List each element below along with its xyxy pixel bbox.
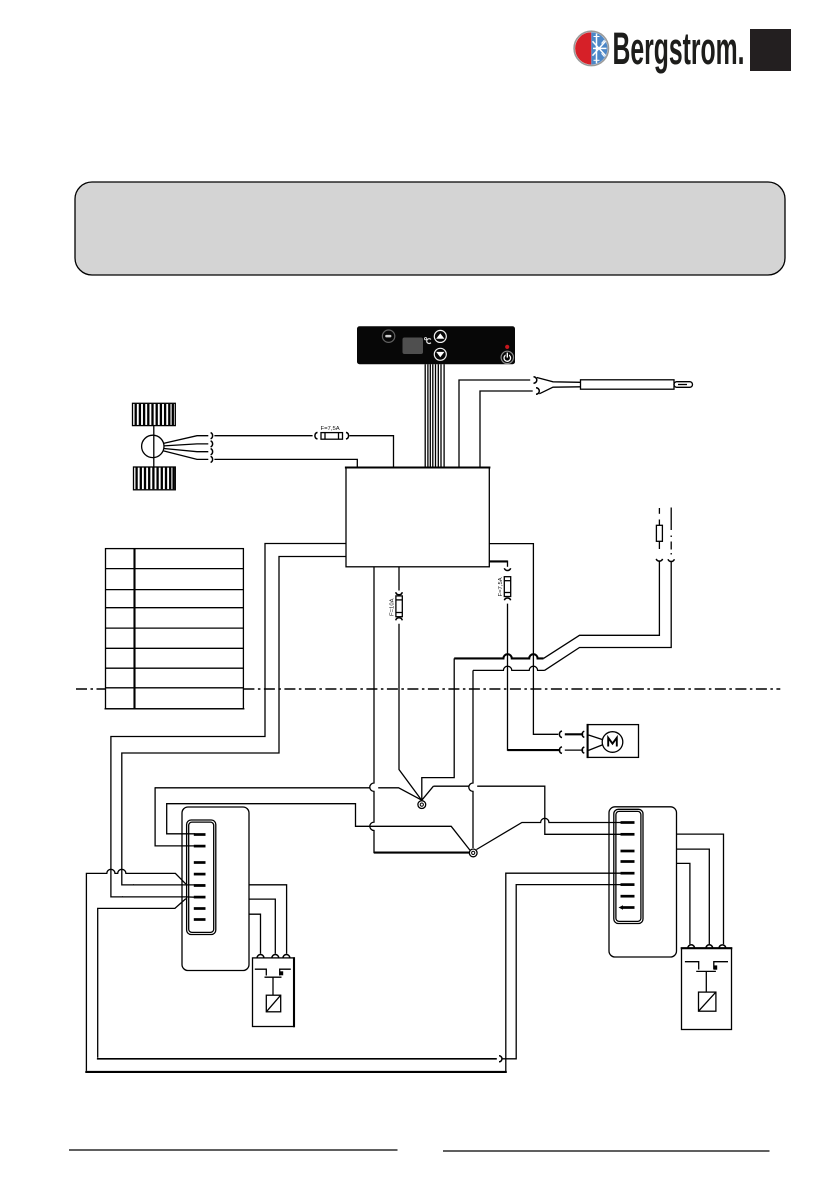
wire box-left 2 to strip1 pin5 xyxy=(122,557,346,885)
relay strip 1 (left) outer housing xyxy=(182,807,249,971)
logo Bergstrom circle xyxy=(574,31,608,65)
main chassis dash-dot line xyxy=(76,688,780,690)
grey rounded note box xyxy=(75,182,785,275)
control box (main ECU) xyxy=(345,468,491,567)
junction node J1 xyxy=(418,801,426,809)
strip2 wires to relay K2 xyxy=(677,834,724,944)
fuse F 7,5A (fan feed) xyxy=(214,426,393,467)
legend table xyxy=(105,549,245,709)
strip1 wires to relay K1 xyxy=(249,885,287,954)
wire J2 diagonal to strip2 pin1 xyxy=(477,818,621,849)
relay strip 2 (right) outer housing xyxy=(609,807,677,957)
fan lead wires with connectors xyxy=(164,433,213,463)
wire J1 up to dashed supply (wire A) xyxy=(422,508,663,800)
condenser motor M1 xyxy=(588,724,639,758)
wire J2 up to dash-dot supply (wire B) xyxy=(469,508,675,849)
wire box-left 1 to strip1 pin6 xyxy=(111,544,346,897)
svg-text:Bergstrom.: Bergstrom. xyxy=(613,23,745,74)
wire J2 thick to box bottom via x374 xyxy=(370,567,469,853)
blower fan assembly (evaporator) xyxy=(133,403,176,490)
footer rule left xyxy=(69,1149,398,1151)
control panel U1 xyxy=(357,326,515,364)
svg-text:F=7,5A: F=7,5A xyxy=(498,577,504,596)
wire ribbon from control panel to control box xyxy=(425,364,444,467)
black square top right xyxy=(750,29,791,71)
relay strip 1 inner connector xyxy=(187,820,216,935)
footer rule right xyxy=(443,1150,770,1152)
box right wire to motor high xyxy=(489,544,558,735)
relay K1 xyxy=(253,955,295,1028)
wire J2 diagonal to strip1 pin1 loop xyxy=(167,804,470,850)
temperature sensor probe xyxy=(459,377,693,468)
ground bus outer (to strip1 pin5 / strip2 pin6) xyxy=(85,869,621,1072)
ground bus inner (to strip1 pin6 / strip2 pin5) xyxy=(97,885,621,1062)
relay strip 2 inner connector xyxy=(614,809,643,923)
strip2 pins xyxy=(621,823,635,908)
strip2 pin9 arrow xyxy=(619,905,624,910)
fan return wire xyxy=(214,459,357,467)
svg-text:F=10A: F=10A xyxy=(390,598,396,616)
fuse F=10A drop from box xyxy=(390,567,422,800)
strip1 pins xyxy=(194,835,206,920)
box right thick stub to fuse F=7,5A right xyxy=(489,561,560,751)
junction node J2 xyxy=(469,849,477,857)
wire J1 diagonal to horizontal feed (to strip2 pin2) xyxy=(155,786,621,846)
relay K2 xyxy=(681,945,733,1030)
condenser motor M1 connectors xyxy=(508,731,585,753)
svg-text:F=7,5A: F=7,5A xyxy=(321,426,340,432)
